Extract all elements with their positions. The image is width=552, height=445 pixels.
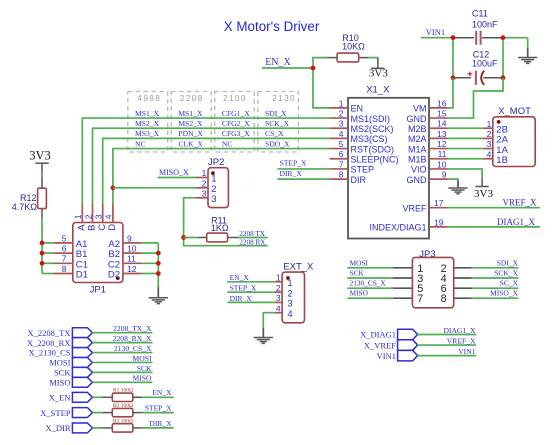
pin 17 VREF [429, 207, 448, 209]
svg-text:2: 2 [487, 129, 492, 139]
svg-text:EN_X: EN_X [265, 57, 291, 68]
svg-text:3V3: 3V3 [474, 188, 493, 200]
svg-text:SDO_X: SDO_X [265, 139, 290, 148]
svg-text:100uF: 100uF [472, 58, 498, 68]
wire 2130_CS_X [92, 352, 152, 354]
svg-text:SCK: SCK [350, 269, 365, 278]
svg-text:1B: 1B [496, 155, 508, 166]
svg-text:19: 19 [434, 217, 444, 227]
svg-text:SC_X: SC_X [500, 279, 519, 288]
pin 7 STEP [330, 168, 349, 170]
pin 9 GND [429, 178, 448, 180]
wire motor phase [448, 148, 483, 150]
wire VIN1 [418, 355, 477, 357]
svg-text:EN_X: EN_X [152, 388, 172, 397]
svg-text:MISO: MISO [133, 374, 153, 383]
pin 2 MS1(SDI) [330, 117, 349, 119]
svg-text:2208: 2208 [180, 94, 204, 103]
svg-text:X_2208_RX: X_2208_RX [27, 338, 70, 348]
flag X_EN [72, 392, 92, 402]
svg-text:VIN1: VIN1 [426, 27, 445, 37]
svg-text:1: 1 [339, 98, 344, 108]
svg-text:4: 4 [487, 149, 492, 159]
svg-text:100nF: 100nF [472, 19, 498, 29]
wire EN_X horizontal [262, 67, 313, 69]
svg-text:X1_X: X1_X [366, 85, 390, 96]
svg-text:X_DIAG1: X_DIAG1 [360, 330, 396, 340]
svg-text:1: 1 [287, 278, 292, 289]
dashed option box 2208 [171, 92, 211, 153]
svg-text:4988: 4988 [138, 94, 162, 103]
svg-text:3: 3 [276, 293, 281, 303]
svg-text:NC: NC [135, 139, 146, 148]
wire config bus 3 [103, 138, 331, 203]
wire STEP_X to EXT pin2 [227, 291, 275, 293]
X_MOT pin 1 2B [483, 127, 493, 129]
junction right rail [501, 35, 506, 40]
svg-text:SLEEP(NC): SLEEP(NC) [351, 155, 399, 165]
pin 1 marker X_MOT [497, 120, 501, 124]
svg-text:D1: D1 [76, 270, 88, 281]
wire VIN1 [421, 37, 453, 39]
svg-text:VIN1: VIN1 [377, 351, 396, 361]
junction VIN-C11-C12 left [451, 35, 456, 40]
JP1 pin 9 A2 [123, 242, 142, 244]
wire 2208 TX [238, 237, 268, 239]
wire MISO_X to JP2 pin1 [158, 177, 196, 179]
pin 1 marker JP2 [211, 171, 215, 175]
wire MOSI [92, 361, 152, 363]
pin 10 VIO [429, 168, 448, 170]
JP1 pin 4 D [112, 204, 114, 223]
svg-text:CS_X: CS_X [265, 129, 284, 138]
svg-text:MISO: MISO [49, 378, 70, 388]
connector JP2 box [208, 168, 228, 208]
svg-text:1: 1 [487, 119, 492, 129]
wire config bus 2 [93, 128, 331, 203]
flag X_2208_TX [72, 328, 92, 338]
flag SCK [72, 367, 92, 377]
pin 11 M1B [429, 158, 448, 160]
JP3 pin 1 [393, 267, 413, 269]
svg-text:MS2(SCK): MS2(SCK) [351, 124, 394, 134]
pin 5 RST(SDO) [330, 148, 349, 150]
svg-text:X_DIR: X_DIR [45, 423, 70, 433]
svg-text:16: 16 [437, 98, 447, 108]
wire R12 down to JP1 pins [41, 218, 43, 274]
flag X_DIAG1 [398, 329, 418, 340]
svg-text:8: 8 [441, 293, 447, 305]
pin 19 INDEX/DIAG1 [429, 226, 448, 228]
capacitor C12 [453, 77, 471, 79]
wire down to ground [527, 38, 529, 49]
power 3V3 at R10 [377, 58, 379, 69]
svg-text:6: 6 [339, 149, 344, 159]
svg-text:4: 4 [276, 304, 281, 314]
wire C12 to VM pin 16 [448, 78, 454, 108]
svg-text:VREF_X: VREF_X [447, 336, 476, 345]
svg-text:M2B: M2B [408, 124, 427, 134]
svg-text:SCK: SCK [54, 368, 71, 378]
svg-text:STEP_X: STEP_X [145, 404, 172, 413]
pin 8 DIR [330, 178, 349, 180]
resistor R3 100ohm [92, 427, 102, 429]
wire top rail to C11 right [503, 37, 528, 39]
flag X_2208_RX [72, 338, 92, 348]
pin 6 SLEEP(NC) [330, 158, 349, 160]
svg-text:C11: C11 [472, 8, 488, 18]
svg-text:CFG3_X: CFG3_X [222, 129, 250, 138]
JP3 pin 7 [393, 297, 413, 299]
svg-text:EN: EN [351, 104, 364, 114]
svg-text:DIR_X: DIR_X [280, 169, 303, 178]
svg-text:2208 RX: 2208 RX [239, 238, 266, 246]
svg-text:9: 9 [442, 169, 447, 179]
svg-text:4: 4 [287, 309, 292, 320]
svg-text:2: 2 [83, 214, 93, 219]
pin 1 marker EXT_X [286, 276, 290, 280]
flag X_STEP [72, 408, 92, 418]
wire DIAG1_X [448, 226, 541, 228]
EXT_X pin 4 [275, 312, 282, 314]
pin 12 M1A [429, 148, 448, 150]
svg-text:2130: 2130 [272, 94, 296, 103]
JP3 pin 3 [393, 277, 413, 279]
wire VIN rail down left [452, 38, 454, 78]
svg-text:MOSI: MOSI [49, 358, 70, 368]
wire JP3 right [472, 297, 519, 299]
svg-text:2: 2 [202, 178, 207, 188]
JP1 pin 10 B2 [123, 252, 142, 254]
svg-text:2208 TX: 2208 TX [239, 230, 265, 238]
wire GND pin 9 [448, 179, 459, 181]
flag X_DIR [72, 423, 92, 433]
wire JP1 right [142, 242, 159, 244]
svg-text:11: 11 [127, 254, 136, 264]
svg-text:VREF: VREF [402, 204, 427, 214]
wire VREF_X [418, 344, 477, 346]
wire 2208_TX_X [92, 332, 152, 334]
svg-text:DIR_X: DIR_X [149, 419, 172, 428]
wire EN vertical to pin 1 [313, 68, 331, 108]
X_MOT pin 3 1A [483, 148, 493, 150]
wire JP3 left [347, 277, 393, 279]
svg-text:VIO: VIO [411, 165, 427, 175]
wire EN_X [142, 396, 174, 398]
wire JP3 right [472, 277, 519, 279]
svg-text:EN_X: EN_X [230, 273, 250, 282]
pin 15 GND [429, 117, 448, 119]
wire EN_X to EXT pin1 [227, 281, 275, 283]
wire JP3 right [472, 287, 519, 289]
svg-text:VREF_X: VREF_X [502, 197, 537, 207]
svg-text:R3 100Ω: R3 100Ω [113, 418, 133, 424]
svg-text:X_VREF: X_VREF [364, 340, 396, 350]
svg-text:1KΩ: 1KΩ [211, 223, 229, 233]
svg-text:DIAG1_X: DIAG1_X [443, 326, 476, 335]
ground top right [527, 48, 529, 58]
svg-text:RST(SDO): RST(SDO) [351, 144, 395, 154]
wire to JP2 pin 2 [113, 187, 196, 189]
JP3 pin 8 [454, 297, 472, 299]
power 3V3 at VIO [481, 178, 483, 187]
junction EN node [311, 66, 316, 71]
pin 3 MS2(SCK) [330, 127, 349, 129]
svg-text:MS1_X: MS1_X [178, 109, 203, 118]
wire JP3 right [472, 267, 519, 269]
wire JP1 right [142, 273, 159, 275]
resistor R1 100ohm [92, 396, 102, 398]
EXT_X pin 1 [275, 281, 282, 283]
wire motor phase [448, 137, 483, 139]
svg-text:1: 1 [276, 273, 281, 283]
flag X_VREF [398, 340, 418, 351]
wire motor phase [448, 127, 483, 129]
svg-text:M2A: M2A [408, 134, 427, 144]
wire motor phase [448, 158, 483, 160]
connector JP1 box [73, 223, 123, 283]
svg-text:SCK_X: SCK_X [494, 269, 518, 278]
svg-text:7: 7 [339, 159, 344, 169]
svg-text:NC: NC [222, 139, 233, 148]
JP3 pin 6 [454, 287, 472, 289]
dashed option box 4988 [128, 92, 168, 153]
wire 3V3 to R12 [41, 174, 43, 178]
resistor R2 100ohm [92, 412, 102, 414]
flag MISO [72, 377, 92, 387]
svg-text:7: 7 [417, 293, 423, 305]
JP1 pin 5 A1 [53, 242, 73, 244]
svg-text:JP3: JP3 [419, 249, 435, 260]
svg-text:3: 3 [202, 188, 207, 198]
connector JP3 box [412, 257, 453, 307]
ground below JP1 [157, 287, 159, 298]
wire JP3 left [347, 287, 393, 289]
connector EXT_X box [282, 272, 304, 323]
svg-text:3: 3 [211, 194, 216, 205]
JP1 pin 1 A [81, 204, 83, 223]
wire R10 to 3V3 [368, 57, 378, 59]
svg-text:SDI_X: SDI_X [497, 258, 519, 267]
pin 13 M2A [429, 137, 448, 139]
wire C12 right to GND pin 15 [448, 78, 504, 118]
wire JP1 left [42, 242, 53, 244]
svg-text:JP1: JP1 [90, 285, 106, 296]
svg-text:PDN_X: PDN_X [178, 129, 203, 138]
svg-text:4: 4 [339, 129, 344, 139]
svg-text:11: 11 [438, 149, 447, 159]
wire right rail down [502, 38, 504, 78]
svg-text:STEP: STEP [351, 165, 375, 175]
ground below EXT_X [262, 328, 264, 338]
svg-text:MOSI: MOSI [133, 354, 152, 363]
wire DIAG1_X [418, 334, 477, 336]
svg-text:D: D [107, 224, 118, 231]
JP3 pin 4 [454, 277, 472, 279]
svg-text:1: 1 [73, 214, 83, 219]
svg-text:INDEX/DIAG1: INDEX/DIAG1 [369, 223, 426, 233]
svg-text:2130_CS_X: 2130_CS_X [114, 344, 152, 353]
wire DIR_X to EXT pin3 [227, 301, 275, 303]
JP2 pin 3 [196, 197, 208, 199]
svg-text:X Motor's Driver: X Motor's Driver [224, 19, 320, 34]
svg-text:GND: GND [407, 175, 428, 185]
wire EXT pin4 to ground [263, 313, 275, 329]
ground at pin 9 [457, 181, 459, 189]
svg-text:X_2208_TX: X_2208_TX [28, 328, 71, 338]
flag MOSI [72, 358, 92, 368]
svg-text:MS3(CS): MS3(CS) [351, 134, 388, 144]
svg-text:DIAG1_X: DIAG1_X [497, 217, 535, 227]
svg-text:8: 8 [62, 264, 67, 274]
svg-text:13: 13 [437, 129, 447, 139]
svg-text:14: 14 [437, 119, 447, 129]
svg-text:X_STEP: X_STEP [40, 408, 71, 418]
svg-text:SDI_X: SDI_X [265, 109, 287, 118]
wire JP1 left [42, 262, 53, 264]
svg-text:MS2_X: MS2_X [178, 119, 203, 128]
svg-text:MS1_X: MS1_X [135, 109, 160, 118]
wire config bus 1 [82, 118, 330, 204]
svg-text:5: 5 [339, 139, 344, 149]
wire EN up to R10 [313, 58, 328, 68]
svg-text:3V3: 3V3 [369, 68, 388, 80]
JP1 pin 12 D2 [123, 273, 142, 275]
svg-text:2: 2 [276, 283, 281, 293]
wire JP1 right [142, 252, 159, 254]
connector X_MOT box [493, 117, 535, 167]
EXT_X pin 3 [275, 301, 282, 303]
svg-text:EXT_X: EXT_X [283, 262, 314, 273]
svg-text:CFG2_X: CFG2_X [222, 119, 250, 128]
svg-text:VM: VM [413, 104, 427, 114]
wire JP1 right column to ground [157, 243, 159, 288]
svg-text:10: 10 [127, 244, 137, 254]
svg-text:R1 100Ω: R1 100Ω [113, 388, 133, 394]
junction on wire D [111, 185, 116, 190]
wire JP1 left [42, 252, 53, 254]
svg-text:5: 5 [62, 233, 67, 243]
svg-text:2208_RX_X: 2208_RX_X [113, 334, 152, 343]
svg-text:CLK_X: CLK_X [178, 139, 203, 148]
wire JP3 left [347, 267, 393, 269]
pin 1 marker JP1 [116, 276, 120, 280]
wire JP1 right [142, 262, 159, 264]
svg-text:2100: 2100 [223, 94, 247, 103]
svg-text:MS2_X: MS2_X [135, 119, 160, 128]
svg-text:10: 10 [437, 159, 447, 169]
svg-text:10KΩ: 10KΩ [342, 42, 365, 52]
JP1 pin 8 D1 [53, 273, 73, 275]
flag X_2130_CS [72, 348, 92, 358]
svg-text:STEP_X: STEP_X [280, 158, 308, 167]
svg-text:R2 100Ω: R2 100Ω [113, 403, 133, 409]
svg-text:3: 3 [94, 214, 104, 219]
svg-text:D2: D2 [108, 270, 120, 281]
svg-text:DIR: DIR [351, 175, 367, 185]
svg-text:CFG1_X: CFG1_X [222, 109, 250, 118]
wire 2208_RX_X [92, 342, 152, 344]
svg-text:17: 17 [434, 198, 444, 208]
svg-text:4: 4 [104, 214, 114, 219]
svg-text:X_2130_CS: X_2130_CS [28, 348, 70, 358]
svg-text:1: 1 [202, 168, 207, 178]
JP3 pin 5 [393, 287, 413, 289]
resistor R10 [328, 57, 338, 59]
junction JP1 left column [40, 241, 45, 246]
wire STEP_X [277, 168, 330, 170]
svg-text:7: 7 [62, 254, 67, 264]
svg-text:SCK_X: SCK_X [265, 119, 290, 128]
capacitor C11 [453, 37, 474, 39]
wire JP2 pin3 down [184, 198, 268, 246]
pin 16 VM [429, 107, 448, 109]
wire config bus 4 [113, 149, 331, 204]
resistor R12 [41, 177, 43, 188]
flag VIN1 [398, 350, 418, 361]
svg-text:X_EN: X_EN [49, 393, 71, 403]
X_MOT pin 2 2A [483, 137, 493, 139]
svg-text:MOSI: MOSI [350, 258, 369, 267]
wire SCK [92, 371, 152, 373]
svg-text:GND: GND [407, 114, 428, 124]
svg-text:15: 15 [437, 108, 447, 118]
pin 4 MS3(CS) [330, 137, 349, 139]
resistor R11 [184, 237, 199, 239]
JP1 pin 6 B1 [53, 252, 73, 254]
pin 14 M2B [429, 127, 448, 129]
svg-text:MISO_X: MISO_X [159, 168, 189, 177]
svg-text:MS3_X: MS3_X [135, 129, 160, 138]
dashed option box 2100 [215, 92, 255, 153]
svg-text:X_MOT: X_MOT [498, 106, 531, 117]
wire DIR_X [277, 178, 330, 180]
svg-text:3V3: 3V3 [29, 148, 51, 162]
svg-text:M1B: M1B [408, 155, 427, 165]
wire JP3 left [347, 297, 393, 299]
JP1 pin 2 B [92, 204, 94, 223]
svg-text:12: 12 [127, 264, 137, 274]
svg-text:DIR_X: DIR_X [230, 294, 253, 303]
svg-text:8: 8 [339, 169, 344, 179]
svg-text:12: 12 [437, 139, 447, 149]
EXT_X pin 2 [275, 291, 282, 293]
wire MISO [92, 381, 152, 383]
JP1 pin 11 C2 [123, 262, 142, 264]
JP1 pin 3 C [102, 204, 104, 223]
svg-text:MISO: MISO [350, 289, 368, 298]
wire STEP_X [142, 412, 174, 414]
svg-text:JP2: JP2 [208, 157, 224, 168]
wire VIO to 3V3 [448, 169, 483, 178]
svg-text:M1A: M1A [408, 144, 427, 154]
svg-text:VIN1: VIN1 [458, 347, 475, 356]
svg-text:9: 9 [127, 233, 132, 243]
op-amp U1 driver IC X1_X box [348, 98, 429, 239]
junction R11 node [181, 235, 186, 240]
JP1 pin 7 C1 [53, 262, 73, 264]
JP3 pin 2 [454, 267, 472, 269]
svg-text:MS1(SDI): MS1(SDI) [351, 114, 391, 124]
svg-text:4.7KΩ: 4.7KΩ [12, 202, 38, 212]
svg-text:3: 3 [339, 119, 344, 129]
svg-text:2130_CS_X: 2130_CS_X [350, 279, 387, 288]
svg-text:MISO_X: MISO_X [490, 289, 519, 298]
wire DIR_X [142, 427, 174, 429]
pin 1 EN [330, 107, 349, 109]
wire VREF_X [448, 207, 541, 209]
svg-text:SCK: SCK [137, 364, 152, 373]
